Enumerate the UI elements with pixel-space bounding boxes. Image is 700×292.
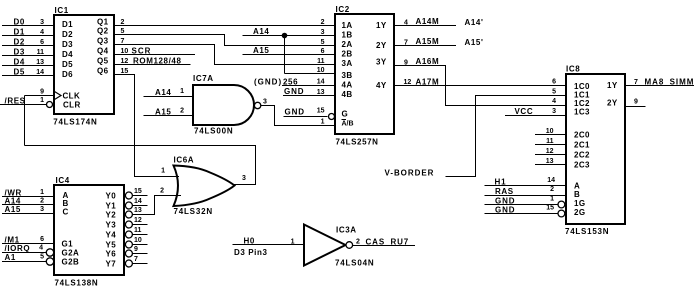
svg-text:9: 9 <box>404 60 408 67</box>
IC3A output inversion bubble <box>346 242 353 249</box>
svg-text:74LS04N: 74LS04N <box>335 259 374 268</box>
svg-text:9: 9 <box>634 99 638 106</box>
svg-text:6: 6 <box>40 39 44 46</box>
svg-text:D5: D5 <box>62 60 73 69</box>
svg-text:D3 Pin3: D3 Pin3 <box>234 248 268 257</box>
svg-text:A14: A14 <box>253 27 269 36</box>
svg-text:7: 7 <box>121 38 125 45</box>
svg-text:12: 12 <box>121 58 129 65</box>
svg-text:H1: H1 <box>495 178 507 187</box>
wire net H1 to IC8 pin 14 (A) <box>485 185 566 187</box>
wire net H0 to IC3A pin 1 <box>233 244 305 246</box>
svg-text:CLK: CLK <box>63 92 81 101</box>
svg-text:1G: 1G <box>574 199 585 208</box>
wire IC4 Y5 pin 10 stub <box>133 244 148 246</box>
svg-text:1: 1 <box>40 189 44 196</box>
gate U6A: IC6A 74LS32N OR gate body <box>174 166 235 207</box>
svg-text:5: 5 <box>552 89 556 96</box>
svg-text:G1: G1 <box>62 240 74 249</box>
wire net SCR from IC1 Q4 pin 10 <box>114 54 195 56</box>
svg-text:ROM128/48: ROM128/48 <box>133 57 182 66</box>
IC4 output Y6 inversion bubble <box>125 250 132 257</box>
wire net A14 to IC7A pin 1 <box>144 96 194 98</box>
svg-text:1C3: 1C3 <box>574 108 590 117</box>
svg-text:74LS138N: 74LS138N <box>55 279 99 288</box>
IC7A output inversion bubble <box>254 102 260 108</box>
svg-text:1: 1 <box>291 239 295 246</box>
svg-text:MA8_SIMM: MA8_SIMM <box>645 78 695 87</box>
svg-text:2: 2 <box>180 108 184 115</box>
svg-text:IC6A: IC6A <box>174 156 195 165</box>
svg-text:2: 2 <box>356 239 360 246</box>
svg-text:4: 4 <box>40 29 44 36</box>
wire /RES vertical branch down <box>24 96 26 146</box>
svg-text:Y5: Y5 <box>106 241 117 250</box>
svg-text:13: 13 <box>134 207 142 214</box>
wire IC3A output net CAS_RU7 <box>353 245 415 247</box>
wire GND to IC8 pin 15 (2G) <box>485 213 559 215</box>
wire IC2 1Y pin 4 output net A14M <box>395 25 457 27</box>
svg-text:G2A: G2A <box>62 249 80 258</box>
wire IC4 Y0 pin 15 stub <box>133 195 148 197</box>
wire VCC to IC8 pin 3 <box>505 115 565 117</box>
svg-text:15: 15 <box>121 68 129 75</box>
svg-text:9: 9 <box>134 246 138 253</box>
svg-text:/IORQ: /IORQ <box>5 244 31 253</box>
svg-text:13: 13 <box>317 89 325 96</box>
svg-text:A16M: A16M <box>416 57 440 66</box>
svg-text:D2: D2 <box>14 38 25 47</box>
wire net D3 to IC1 <box>2 55 53 57</box>
svg-text:D2: D2 <box>62 30 73 39</box>
svg-text:IC8: IC8 <box>566 65 580 74</box>
svg-text:RAS: RAS <box>495 187 514 196</box>
wire net 256 to IC2 pin 14 (4A) <box>282 85 335 87</box>
svg-text:D6: D6 <box>62 70 73 79</box>
svg-text:2C2: 2C2 <box>574 151 590 160</box>
svg-text:GND: GND <box>284 87 304 96</box>
IC4 output Y0 inversion bubble <box>125 192 132 199</box>
svg-text:A14M: A14M <box>416 17 440 26</box>
IC U1: IC1 74LS174N hex D flip-flop - box <box>54 15 114 114</box>
svg-text:2C3: 2C3 <box>574 161 590 170</box>
IC2 G enable inversion bubble <box>329 114 335 120</box>
svg-text:CLR: CLR <box>63 101 81 110</box>
wire IC8 2C0 pin 10 stub <box>535 134 565 136</box>
svg-text:A/B: A/B <box>342 121 354 128</box>
svg-text:14: 14 <box>134 198 142 205</box>
svg-text:Y0: Y0 <box>106 192 117 201</box>
svg-text:14: 14 <box>547 177 555 184</box>
wire net A14 to IC2 pin 3 (1B) <box>243 35 335 37</box>
svg-text:7: 7 <box>134 256 138 263</box>
wire net A15 to IC7A pin 2 <box>144 115 194 117</box>
wire net /WR to IC4 pin 1 (A) <box>2 196 54 198</box>
svg-text:11: 11 <box>37 49 45 56</box>
svg-text:A17M: A17M <box>416 78 440 87</box>
svg-text:12: 12 <box>546 148 554 155</box>
svg-text:15: 15 <box>546 205 554 212</box>
wire IC4 Y1 pin 14 stub <box>133 205 148 207</box>
svg-text:A15M: A15M <box>416 37 440 46</box>
svg-text:2C0: 2C0 <box>574 131 590 140</box>
svg-text:4A: 4A <box>342 81 353 90</box>
svg-text:G: G <box>342 110 349 119</box>
svg-text:Q1: Q1 <box>97 18 109 27</box>
svg-text:B: B <box>574 190 580 199</box>
svg-text:12: 12 <box>134 217 142 224</box>
svg-text:IC1: IC1 <box>55 6 69 15</box>
svg-text:1: 1 <box>180 88 184 95</box>
svg-text:4B: 4B <box>342 90 353 99</box>
IC U2: IC2 74LS257N quad 2-input mux - box <box>335 14 394 134</box>
svg-text:Y1: Y1 <box>106 202 117 211</box>
wire IC8 2Y pin 9 output stub <box>625 106 646 108</box>
svg-text:A14: A14 <box>155 88 171 97</box>
svg-text:15: 15 <box>317 108 325 115</box>
svg-text:A15': A15' <box>465 38 484 47</box>
IC4 output Y2 inversion bubble <box>125 211 132 218</box>
svg-text:IC4: IC4 <box>56 176 70 185</box>
svg-text:10: 10 <box>546 128 554 135</box>
svg-text:G2B: G2B <box>62 258 80 267</box>
IC4 G2A inversion bubble <box>46 249 53 256</box>
svg-text:Q2: Q2 <box>97 27 109 36</box>
svg-text:14: 14 <box>317 79 325 86</box>
junction dot on A14 net <box>282 33 288 39</box>
IC4 output Y7 inversion bubble <box>125 260 132 267</box>
svg-text:A1: A1 <box>5 253 16 262</box>
svg-text:2: 2 <box>121 19 125 26</box>
svg-text:A14': A14' <box>465 18 484 27</box>
svg-text:4Y: 4Y <box>376 81 387 90</box>
svg-text:1: 1 <box>321 119 325 126</box>
IC4 output Y5 inversion bubble <box>125 241 132 248</box>
wire CLK pin 9 to /RES net <box>25 95 54 97</box>
svg-text:5: 5 <box>321 39 325 46</box>
svg-text:13: 13 <box>546 158 554 165</box>
IC4 output Y1 inversion bubble <box>125 202 132 209</box>
svg-text:1Y: 1Y <box>376 21 387 30</box>
svg-text:12: 12 <box>404 79 412 86</box>
svg-text:2B: 2B <box>342 50 353 59</box>
svg-text:3A: 3A <box>342 59 353 68</box>
svg-text:15: 15 <box>134 188 142 195</box>
wire net D2 to IC1 <box>2 45 53 47</box>
wire IC8 2C3 pin 13 stub <box>535 164 565 166</box>
svg-text:4: 4 <box>39 245 43 252</box>
wire IC8 2C1 pin 11 stub <box>535 144 565 146</box>
wire IC4 Y3 pin 12 stub <box>133 224 148 226</box>
svg-text:7: 7 <box>634 79 638 86</box>
wire net /M1 to IC4 pin 6 (G1) <box>2 243 54 245</box>
wire IC7A pin 3 output to IC2 pin 1 (A/B select) <box>261 106 335 126</box>
wire IC2 4Y pin 12 output net A17M to IC8 pin 6 <box>395 85 566 87</box>
wire IC4 Y7 pin 7 stub <box>133 263 148 265</box>
svg-text:74LS153N: 74LS153N <box>565 227 609 236</box>
svg-text:GND: GND <box>495 206 515 215</box>
wire IC1 Q3 pin 7 to IC2 pin 11 (3A) <box>114 45 335 65</box>
svg-text:6: 6 <box>552 79 556 86</box>
svg-text:D4: D4 <box>62 50 73 59</box>
wire IC4 Y4 pin 11 stub <box>133 234 148 236</box>
IC2 A overbar stroke <box>342 119 347 121</box>
svg-text:10: 10 <box>317 67 325 74</box>
svg-text:11: 11 <box>546 138 554 145</box>
svg-text:2: 2 <box>40 198 44 205</box>
svg-text:74LS00N: 74LS00N <box>194 127 233 136</box>
svg-text:2G: 2G <box>574 208 585 217</box>
svg-text:1: 1 <box>550 196 554 203</box>
svg-text:Y6: Y6 <box>106 250 117 259</box>
svg-text:GND: GND <box>285 108 305 117</box>
svg-text:D1: D1 <box>14 28 25 37</box>
svg-text:11: 11 <box>317 58 325 65</box>
IC1 CLR inversion bubble <box>47 102 53 108</box>
svg-text:3Y: 3Y <box>376 58 387 67</box>
svg-text:10: 10 <box>134 237 142 244</box>
svg-text:IC7A: IC7A <box>193 74 214 83</box>
svg-text:1: 1 <box>161 168 165 175</box>
svg-text:1Y: 1Y <box>607 81 618 90</box>
svg-text:D3: D3 <box>14 48 25 57</box>
svg-text:13: 13 <box>36 59 44 66</box>
wire IC1 Q6 pin 15 to IC6A input 1 <box>114 75 179 177</box>
svg-text:74LS257N: 74LS257N <box>336 138 379 147</box>
svg-text:3: 3 <box>40 19 44 26</box>
svg-text:VCC: VCC <box>515 107 534 116</box>
svg-text:11: 11 <box>134 227 142 234</box>
svg-text:Y7: Y7 <box>106 260 117 269</box>
wire A14 branch to IC2 pin 10 (3B) <box>285 73 335 75</box>
wire net V-BORDER to IC8 pin 5 <box>446 96 566 177</box>
IC U8: IC8 74LS153N dual 4-input mux - box <box>566 74 625 224</box>
wire net RAS to IC8 pin 2 (B) <box>485 195 566 197</box>
svg-text:2A: 2A <box>342 40 353 49</box>
svg-text:5: 5 <box>40 254 44 261</box>
wire /RES to CLR bubble <box>0 104 47 106</box>
IC4 output Y3 inversion bubble <box>125 221 132 228</box>
IC4 output Y4 inversion bubble <box>125 231 132 238</box>
wire net A15 to IC2 pin 6 (2B) <box>243 54 335 56</box>
svg-text:74LS174N: 74LS174N <box>53 118 97 127</box>
IC1 CLK edge-trigger symbol <box>55 92 62 100</box>
wire IC1 Q2 pin 5 to IC2 pin 5 (2A) <box>114 35 335 46</box>
wire A14 branch down to IC2 pin 10 (3B) <box>284 36 286 74</box>
svg-text:Q4: Q4 <box>97 47 109 56</box>
wire IC4 Y6 pin 9 stub <box>133 253 148 255</box>
svg-text:IC3A: IC3A <box>336 226 357 235</box>
svg-text:D1: D1 <box>62 20 73 29</box>
svg-text:Q3: Q3 <box>97 37 109 46</box>
svg-text:4: 4 <box>404 20 408 27</box>
wire GND to IC8 pin 1 (1G) <box>485 204 559 206</box>
IC U4: IC4 74LS138N 3-to-8 decoder - box <box>54 185 124 275</box>
svg-text:(GND): (GND) <box>254 78 282 87</box>
svg-text:3: 3 <box>321 29 325 36</box>
svg-text:10: 10 <box>121 48 129 55</box>
svg-text:IC2: IC2 <box>336 5 350 14</box>
wire IC8 1Y pin 7 output net MA8_SIMM <box>625 85 694 87</box>
svg-text:2: 2 <box>160 188 164 195</box>
svg-text:3: 3 <box>552 108 556 115</box>
wire net /IORQ to IC4 pin 4 (G2A) <box>2 252 47 254</box>
wire net A15 to IC4 pin 3 (C) <box>2 213 54 215</box>
gate U3A: IC3A 74LS04N inverter triangle <box>304 225 346 266</box>
svg-text:2C1: 2C1 <box>574 141 590 150</box>
svg-text:/RES: /RES <box>5 97 26 106</box>
wire IC4 Y2 pin 13 to IC6A input pin 2 <box>133 196 181 215</box>
svg-text:A15: A15 <box>5 205 21 214</box>
svg-text:9: 9 <box>40 89 44 96</box>
wire net A1 to IC4 pin 5 (G2B) <box>2 261 47 263</box>
wire IC6A pin 3 output to /RES net <box>25 146 256 185</box>
svg-text:2Y: 2Y <box>376 41 387 50</box>
wire net D0 to IC1 <box>2 25 53 27</box>
svg-text:3: 3 <box>242 175 246 182</box>
svg-text:D0: D0 <box>14 18 25 27</box>
svg-text:7: 7 <box>404 40 408 47</box>
svg-text:5: 5 <box>121 28 125 35</box>
svg-text:6: 6 <box>40 236 44 243</box>
wire net D1 to IC1 <box>2 35 53 37</box>
svg-text:D5: D5 <box>14 68 25 77</box>
svg-text:14: 14 <box>36 69 44 76</box>
wire net D4 to IC1 <box>2 65 53 67</box>
svg-text:C: C <box>63 208 69 217</box>
wire net D5 to IC1 <box>2 75 53 77</box>
IC8 2G inversion bubble <box>558 210 565 217</box>
svg-text:3B: 3B <box>342 71 353 80</box>
wire IC2 3Y pin 9 output net A16M to IC8 pin 4 <box>395 66 566 106</box>
svg-text:A15: A15 <box>155 108 171 117</box>
svg-text:Q5: Q5 <box>97 57 109 66</box>
svg-text:GND: GND <box>495 197 515 206</box>
svg-text:A15: A15 <box>253 46 269 55</box>
svg-text:2: 2 <box>321 19 325 26</box>
wire net ROM128/48 from IC1 Q5 pin 12 <box>114 64 191 66</box>
wire GND to IC2 G enable pin 15 <box>284 116 328 118</box>
svg-text:V-BORDER: V-BORDER <box>385 169 435 178</box>
gate U7A: IC7A 74LS00N NAND gate body <box>193 85 254 125</box>
wire IC8 2C2 pin 12 stub <box>535 154 565 156</box>
svg-text:Y2: Y2 <box>106 211 117 220</box>
svg-text:Y3: Y3 <box>106 221 117 230</box>
wire IC4 Y2 pin 13 stub <box>133 214 155 216</box>
wire net A14 to IC4 pin 2 (B) <box>2 204 54 206</box>
svg-text:Y4: Y4 <box>106 231 117 240</box>
svg-text:1A: 1A <box>342 21 353 30</box>
svg-text:SCR: SCR <box>132 47 152 56</box>
IC8 1G inversion bubble <box>558 201 565 208</box>
svg-text:Q6: Q6 <box>97 67 109 76</box>
svg-text:3: 3 <box>263 99 267 106</box>
svg-text:D4: D4 <box>14 58 25 67</box>
svg-text:3: 3 <box>40 206 44 213</box>
IC4 G2B inversion bubble <box>46 258 53 265</box>
svg-text:2: 2 <box>550 186 554 193</box>
svg-text:H0: H0 <box>244 237 255 246</box>
svg-text:1: 1 <box>40 97 44 104</box>
wire IC2 2Y pin 7 output net A15M <box>395 45 457 47</box>
wire GND to IC2 pin 13 (4B) <box>283 95 335 97</box>
svg-text:74LS32N: 74LS32N <box>174 207 213 216</box>
svg-text:2Y: 2Y <box>607 99 618 108</box>
svg-text:4: 4 <box>552 98 556 105</box>
svg-text:1B: 1B <box>342 31 353 40</box>
svg-text:CAS_RU7: CAS_RU7 <box>366 238 410 247</box>
svg-text:6: 6 <box>321 48 325 55</box>
wire IC1 Q1 pin 2 to IC2 pin 2 (1A) <box>114 25 335 27</box>
svg-text:D3: D3 <box>62 40 73 49</box>
